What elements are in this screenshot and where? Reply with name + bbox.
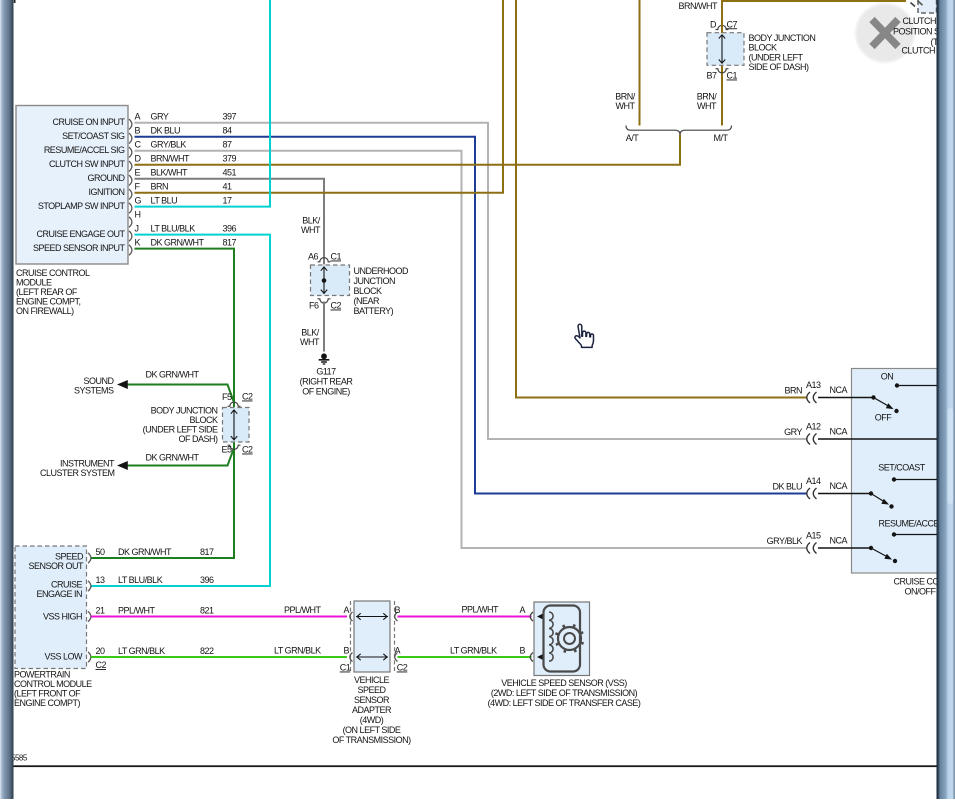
- svg-text:ON FIREWALL): ON FIREWALL): [16, 306, 74, 316]
- svg-text:BODY JUNCTION: BODY JUNCTION: [749, 33, 816, 43]
- svg-text:OFF: OFF: [875, 413, 892, 423]
- svg-text:F6: F6: [309, 301, 319, 311]
- svg-text:ON: ON: [881, 372, 894, 382]
- svg-text:21: 21: [96, 606, 106, 616]
- wire LT GRN/BLK PCM to adapter: [91, 656, 347, 658]
- svg-text:(LEFT REAR OF: (LEFT REAR OF: [16, 287, 78, 297]
- svg-text:BATTERY): BATTERY): [354, 306, 394, 316]
- powertrain control module box: [15, 546, 87, 669]
- labels LT GRN/BLK right: [450, 646, 526, 656]
- label BRN/WHT A/T branch: [615, 92, 636, 112]
- svg-text:NCA: NCA: [830, 385, 848, 395]
- clutch position switch box (clipped): [918, 0, 937, 13]
- sound systems arrow: [117, 380, 128, 389]
- label DK GRN/WHT sound: [146, 370, 200, 380]
- PCM pin 50: [88, 547, 214, 563]
- BJB top labels D C7: [710, 19, 737, 29]
- svg-text:(2WD: LEFT SIDE OF TRANSMISSIO: (2WD: LEFT SIDE OF TRANSMISSION): [491, 688, 638, 698]
- svg-text:PPL/WHT: PPL/WHT: [284, 605, 322, 615]
- svg-text:451: 451: [223, 168, 237, 178]
- svg-text:C2: C2: [397, 663, 408, 673]
- svg-text:NCA: NCA: [830, 536, 848, 546]
- svg-text:D: D: [135, 154, 142, 164]
- svg-text:821: 821: [200, 606, 214, 616]
- PCM pin labels: [28, 552, 84, 662]
- BJB2 caption: [143, 406, 218, 445]
- VSS internal symbol: [544, 606, 584, 672]
- svg-text:20: 20: [96, 646, 106, 656]
- BJB top caption: [749, 33, 816, 72]
- svg-text:LT BLU: LT BLU: [151, 195, 178, 205]
- svg-text:SPEED: SPEED: [357, 685, 386, 695]
- svg-text:CRUISE ENGAGE OUT: CRUISE ENGAGE OUT: [36, 229, 125, 239]
- svg-text:817: 817: [200, 547, 214, 557]
- svg-text:(UNDER LEFT: (UNDER LEFT: [749, 52, 804, 62]
- svg-text:(LEFT FRONT OF: (LEFT FRONT OF: [14, 689, 81, 699]
- svg-text:A14: A14: [806, 476, 821, 486]
- svg-text:13: 13: [96, 575, 106, 585]
- svg-text:SET/COAST: SET/COAST: [878, 463, 926, 473]
- svg-text:SIDE OF DASH): SIDE OF DASH): [749, 62, 810, 72]
- wire DK GRN/WHT below junction block to PCM pin 50: [91, 443, 234, 559]
- svg-text:379: 379: [223, 154, 237, 164]
- label M/T: [714, 133, 729, 143]
- svg-text:B: B: [135, 126, 141, 136]
- svg-text:SPEED SENSOR INPUT: SPEED SENSOR INPUT: [33, 243, 126, 253]
- svg-text:A15: A15: [806, 531, 821, 541]
- vss adapter box: [351, 601, 395, 672]
- PCM caption: [14, 670, 92, 709]
- svg-text:VEHICLE: VEHICLE: [354, 675, 390, 685]
- svg-text:NCA: NCA: [830, 427, 848, 437]
- svg-text:(4WD: LEFT SIDE OF TRANSFER CA: (4WD: LEFT SIDE OF TRANSFER CASE): [488, 698, 641, 708]
- svg-text:CLUSTER SYSTEM: CLUSTER SYSTEM: [40, 468, 115, 478]
- svg-text:NCA: NCA: [830, 481, 848, 491]
- svg-text:BODY JUNCTION: BODY JUNCTION: [151, 406, 218, 416]
- wire A/T vertical: [639, 0, 641, 126]
- svg-text:WHT: WHT: [301, 225, 321, 235]
- svg-text:SPEED: SPEED: [55, 552, 84, 562]
- svg-text:CRUISE CONTROL: CRUISE CONTROL: [16, 268, 90, 278]
- wire BRN from top of page to switch A13: [516, 0, 807, 398]
- body junction block (top): [707, 25, 744, 73]
- label BLK/WHT above UJB: [301, 216, 321, 236]
- switch A12 lead through box: [818, 438, 937, 440]
- right window bar: [937, 0, 955, 799]
- SET/COAST contact: [892, 477, 937, 481]
- svg-text:A: A: [395, 646, 401, 656]
- svg-text:(ON LEFT SIDE: (ON LEFT SIDE: [343, 725, 401, 735]
- svg-text:C2: C2: [331, 301, 342, 311]
- svg-text:C2: C2: [242, 392, 253, 402]
- label A/T: [626, 133, 640, 143]
- svg-text:397: 397: [223, 112, 237, 122]
- svg-text:C1: C1: [331, 252, 342, 262]
- svg-text:M/T: M/T: [714, 133, 729, 143]
- svg-text:CRUISE ON INPUT: CRUISE ON INPUT: [52, 117, 125, 127]
- VSS caption: [488, 678, 641, 708]
- mouse cursor (hand): [575, 324, 594, 347]
- svg-text:GROUND: GROUND: [88, 173, 126, 183]
- svg-text:DK GRN/WHT: DK GRN/WHT: [146, 370, 200, 380]
- svg-text:PPL/WHT: PPL/WHT: [462, 605, 500, 615]
- svg-text:BRN/: BRN/: [697, 92, 718, 102]
- svg-text:(NEAR: (NEAR: [354, 296, 381, 306]
- svg-text:CLUTCH SW INPUT: CLUTCH SW INPUT: [49, 159, 126, 169]
- wire K DK GRN/WHT down to body junction block: [135, 249, 235, 407]
- svg-text:ENGINE COMPT): ENGINE COMPT): [14, 698, 81, 708]
- switch RESUME blade: [869, 546, 897, 563]
- svg-text:BLOCK: BLOCK: [749, 43, 778, 53]
- adapter pin arcs: [350, 612, 398, 662]
- svg-text:A6: A6: [308, 252, 319, 262]
- svg-text:CLUTCH: CLUTCH: [903, 16, 937, 26]
- svg-text:A/T: A/T: [626, 133, 640, 143]
- svg-text:J: J: [135, 223, 139, 233]
- svg-text:396: 396: [223, 223, 237, 233]
- wire BRN/WHT top run to clutch switch: [722, 1, 906, 33]
- svg-text:A12: A12: [806, 422, 821, 432]
- svg-text:SET/COAST SIG: SET/COAST SIG: [62, 131, 125, 141]
- switch caption (clipped): [894, 577, 955, 597]
- svg-text:WHT: WHT: [616, 101, 636, 111]
- CCM pin K: [33, 237, 237, 255]
- svg-text:B7: B7: [706, 71, 717, 81]
- svg-text:BRN/WHT: BRN/WHT: [679, 1, 718, 11]
- CCM pin E: [88, 168, 237, 186]
- wire C GRY/BLK to switch A15: [135, 151, 808, 548]
- wire BLK/WHT to ground: [323, 302, 325, 352]
- svg-text:A: A: [135, 112, 141, 122]
- label BRN/WHT top: [679, 1, 718, 11]
- svg-text:817: 817: [223, 237, 237, 247]
- svg-text:GRY/BLK: GRY/BLK: [767, 536, 803, 546]
- PCM pin 20: [88, 646, 214, 662]
- svg-text:G: G: [135, 195, 142, 205]
- svg-text:G117: G117: [316, 367, 336, 377]
- svg-text:DK BLU: DK BLU: [772, 482, 802, 492]
- top-left frame tick: [14, 0, 16, 3]
- svg-text:CRUISE: CRUISE: [51, 580, 83, 590]
- RESUME contact: [892, 532, 937, 536]
- svg-text:SYSTEMS: SYSTEMS: [74, 386, 114, 396]
- CCM pin J: [36, 223, 236, 241]
- wire PPL/WHT PCM to adapter: [91, 616, 347, 618]
- UJB bottom labels F6 C2: [309, 301, 342, 311]
- ground caption: [300, 367, 354, 397]
- svg-text:BRN: BRN: [151, 182, 169, 192]
- BJB2 bottom labels E5 C2: [221, 445, 253, 455]
- switch SET blade: [869, 491, 894, 508]
- svg-text:GRY: GRY: [784, 427, 802, 437]
- svg-text:H: H: [135, 209, 141, 219]
- svg-text:DK GRN/WHT: DK GRN/WHT: [118, 547, 172, 557]
- svg-text:A13: A13: [806, 380, 821, 390]
- svg-text:GRY: GRY: [151, 112, 169, 122]
- svg-text:LT BLU/BLK: LT BLU/BLK: [118, 575, 163, 585]
- svg-text:C1: C1: [727, 71, 738, 81]
- svg-text:DK GRN/WHT: DK GRN/WHT: [151, 237, 205, 247]
- inline connector ticks at clutch switch: [911, 1, 923, 7]
- svg-text:DK GRN/WHT: DK GRN/WHT: [146, 452, 200, 462]
- svg-text:OF DASH): OF DASH): [178, 434, 218, 444]
- wire LT GRN/BLK adapter to VSS: [398, 656, 532, 658]
- svg-text:822: 822: [200, 646, 214, 656]
- svg-text:SENSOR OUT: SENSOR OUT: [28, 561, 84, 571]
- svg-text:(4WD): (4WD): [360, 715, 384, 725]
- label DK GRN/WHT instrument: [146, 452, 200, 462]
- labels LT GRN/BLK mid: [274, 646, 350, 656]
- svg-text:87: 87: [223, 140, 233, 150]
- CCM pin G: [38, 195, 232, 213]
- sheet number 5585: [11, 753, 28, 762]
- svg-text:F5: F5: [222, 392, 232, 402]
- svg-text:K: K: [135, 237, 141, 247]
- label RESUME/ACCEL: [879, 519, 945, 529]
- brace A/T M/T: [626, 126, 732, 135]
- label BLK/WHT below UJB: [300, 328, 320, 348]
- connector A14: [772, 476, 847, 499]
- connector A15: [767, 531, 848, 554]
- svg-text:DK BLU: DK BLU: [151, 126, 181, 136]
- sound systems label: [74, 376, 115, 396]
- svg-text:D: D: [710, 19, 717, 29]
- svg-text:WHT: WHT: [697, 101, 717, 111]
- CCM pin D: [49, 154, 237, 172]
- VSS pin connectors: [530, 612, 543, 662]
- CCM pin B: [62, 126, 232, 144]
- svg-text:RESUME/ACCEL: RESUME/ACCEL: [879, 519, 945, 529]
- switch A14 black lead: [818, 493, 871, 495]
- underhood junction block: [311, 258, 350, 303]
- CCM pin F: [89, 182, 233, 200]
- wire G LT BLU to top of page: [135, 0, 271, 207]
- labels PPL/WHT mid: [284, 605, 350, 615]
- svg-text:84: 84: [223, 126, 233, 136]
- svg-text:BLK/: BLK/: [301, 328, 320, 338]
- svg-text:C2: C2: [242, 445, 253, 455]
- svg-text:ENGAGE IN: ENGAGE IN: [36, 589, 82, 599]
- svg-text:BRN/: BRN/: [615, 92, 636, 102]
- vehicle speed sensor box: [534, 602, 590, 676]
- svg-text:CLUTCH: CLUTCH: [902, 46, 936, 56]
- svg-text:VEHICLE SPEED SENSOR (VSS): VEHICLE SPEED SENSOR (VSS): [501, 678, 627, 688]
- switch ON/OFF blade: [871, 395, 898, 413]
- switch A13 black lead: [818, 397, 874, 399]
- svg-text:INSTRUMENT: INSTRUMENT: [60, 459, 115, 469]
- svg-text:VSS LOW: VSS LOW: [44, 652, 83, 662]
- body junction block (middle): [223, 402, 250, 449]
- wire PPL/WHT adapter to VSS: [398, 616, 532, 618]
- ground G117: [319, 353, 330, 364]
- wire J LT BLU/BLK to PCM pin 13: [91, 235, 270, 586]
- clutch position switch caption (clipped): [893, 16, 940, 56]
- adapter right pin labels: [395, 605, 401, 656]
- svg-text:B: B: [520, 646, 526, 656]
- instrument cluster arrow: [117, 461, 128, 470]
- svg-text:BLK/WHT: BLK/WHT: [151, 168, 189, 178]
- svg-text:A: A: [520, 605, 526, 615]
- svg-text:GRY/BLK: GRY/BLK: [151, 140, 187, 150]
- adapter caption: [332, 675, 411, 745]
- wire E BLK/WHT to underhood junction block: [135, 179, 325, 265]
- CCM pin A: [52, 112, 236, 130]
- PCM pin 13: [88, 575, 214, 591]
- svg-text:JUNCTION: JUNCTION: [354, 276, 396, 286]
- svg-text:VSS HIGH: VSS HIGH: [43, 612, 82, 622]
- svg-text:396: 396: [200, 575, 214, 585]
- svg-text:BLK/: BLK/: [302, 216, 321, 226]
- svg-text:C7: C7: [727, 19, 738, 29]
- svg-text:WHT: WHT: [300, 337, 320, 347]
- svg-text:STOPLAMP SW INPUT: STOPLAMP SW INPUT: [38, 201, 126, 211]
- svg-text:LT GRN/BLK: LT GRN/BLK: [274, 646, 321, 656]
- UJB caption: [354, 266, 410, 316]
- instrument cluster label: [40, 459, 115, 479]
- svg-text:B: B: [344, 646, 350, 656]
- svg-text:A: A: [344, 605, 350, 615]
- wire B DK BLU to switch A14: [135, 137, 808, 494]
- wire DK GRN/WHT branch to instrument cluster: [128, 448, 235, 466]
- svg-text:17: 17: [223, 195, 233, 205]
- svg-text:5585: 5585: [11, 753, 28, 762]
- svg-text:C: C: [135, 140, 142, 150]
- wire D BRN/WHT to A/T-M/T brace: [135, 135, 681, 165]
- svg-text:LT GRN/BLK: LT GRN/BLK: [450, 646, 497, 656]
- svg-text:LT GRN/BLK: LT GRN/BLK: [118, 646, 165, 656]
- close button: [854, 2, 916, 64]
- PCM pin 21: [88, 606, 214, 622]
- svg-text:C1: C1: [340, 663, 351, 673]
- labels PPL/WHT right: [462, 605, 526, 616]
- adapter C1 C2 labels: [340, 663, 408, 673]
- BJB bottom labels B7 C1: [706, 71, 737, 81]
- UJB top labels A6 C1: [308, 252, 342, 262]
- wire A GRY to switch A12: [135, 123, 808, 439]
- svg-text:OF TRANSMISSION): OF TRANSMISSION): [332, 735, 411, 745]
- cruise control module box: [16, 106, 128, 265]
- svg-text:C2: C2: [96, 660, 107, 670]
- svg-text:ENGINE COMPT,: ENGINE COMPT,: [16, 297, 81, 307]
- svg-text:B: B: [395, 605, 401, 615]
- PCM C2 label: [96, 660, 107, 670]
- svg-text:(UNDER LEFT SIDE: (UNDER LEFT SIDE: [143, 425, 218, 435]
- svg-text:MODULE: MODULE: [16, 278, 52, 288]
- svg-text:POWERTRAIN: POWERTRAIN: [14, 670, 70, 680]
- switch A15 black lead: [818, 547, 871, 549]
- wire DK GRN/WHT branch to sound systems: [128, 385, 235, 403]
- svg-text:BLOCK: BLOCK: [354, 286, 383, 296]
- svg-text:(RIGHT REAR: (RIGHT REAR: [300, 377, 354, 387]
- svg-text:E: E: [135, 168, 141, 178]
- svg-text:41: 41: [223, 182, 233, 192]
- switch ON contact: [881, 372, 937, 388]
- svg-text:UNDERHOOD: UNDERHOOD: [354, 266, 410, 276]
- svg-text:ADAPTER: ADAPTER: [352, 705, 392, 715]
- svg-text:BRN/WHT: BRN/WHT: [151, 154, 190, 164]
- svg-text:OF ENGINE): OF ENGINE): [302, 387, 350, 397]
- svg-text:LT BLU/BLK: LT BLU/BLK: [151, 223, 196, 233]
- svg-text:E5: E5: [221, 445, 232, 455]
- CCM pin H: [129, 209, 141, 227]
- svg-text:POSITION S: POSITION S: [893, 27, 940, 37]
- wire M/T vertical to body junction block: [721, 66, 723, 126]
- label BRN/WHT M/T branch: [697, 92, 718, 112]
- label OFF: [875, 413, 892, 423]
- adapter arrows: [356, 613, 388, 660]
- svg-text:SOUND: SOUND: [83, 376, 114, 386]
- svg-text:PPL/WHT: PPL/WHT: [118, 606, 156, 616]
- BJB2 top labels F5 C2: [222, 392, 253, 403]
- svg-text:CONTROL MODULE: CONTROL MODULE: [14, 679, 92, 689]
- svg-text:BRN: BRN: [784, 386, 802, 396]
- wire F BRN from top of page: [135, 0, 504, 193]
- svg-text:50: 50: [96, 547, 106, 557]
- connector A13: [784, 380, 847, 403]
- cruise control on/off switch box: [852, 369, 938, 574]
- connector A12: [784, 422, 847, 445]
- svg-text:IGNITION: IGNITION: [89, 187, 125, 197]
- svg-text:SENSOR: SENSOR: [354, 695, 390, 705]
- diagram bottom frame line: [14, 765, 938, 767]
- label SET/COAST: [878, 463, 926, 473]
- svg-text:BLOCK: BLOCK: [189, 415, 218, 425]
- CCM caption: [16, 268, 90, 316]
- CCM pin C: [44, 140, 232, 158]
- svg-text:RESUME/ACCEL SIG: RESUME/ACCEL SIG: [44, 145, 125, 155]
- left window bar: [0, 0, 14, 799]
